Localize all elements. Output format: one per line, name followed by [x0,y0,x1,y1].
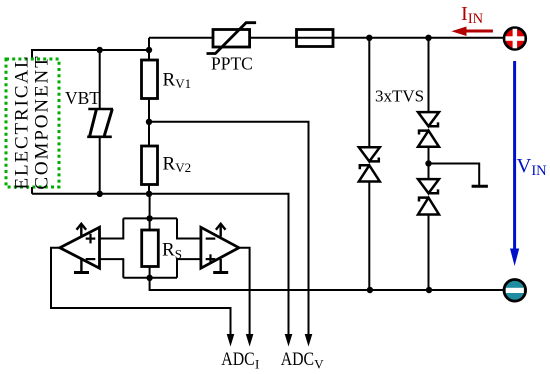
node dot R_S top [146,215,152,221]
wire vertical riser x=149 top rail to R_V1 [148,38,150,60]
fuse F1 [297,30,334,47]
arrow ADC_I b [246,334,254,347]
svg-text:ADC: ADC [281,350,314,370]
wire top main rail [149,37,504,39]
wire VBT branch lower [99,137,101,194]
node dot top rail x=428 [425,35,431,41]
terminal minus [504,280,526,302]
node dot TVS mid [425,160,431,166]
svg-text:ADC: ADC [221,350,254,370]
node dot (100,194) [97,191,103,197]
resistor R_V2 [142,146,158,185]
wire TVS right column upper [428,38,430,112]
arrow V_IN blue [510,61,519,266]
wire U2 minus input [177,218,201,238]
svg-text:VBT: VBT [65,88,100,108]
op-amp U1 ground [74,259,89,273]
svg-text:3xTVS: 3xTVS [375,87,424,106]
wire U2 output to ADC_I [239,248,250,335]
arrow ADC_V b [305,334,313,347]
node dot (100,50) [97,47,103,53]
wire U1 plus input [100,218,124,238]
wire R_S center bottom [149,267,151,278]
node dot bottom rail x=369 [367,287,373,293]
wire to ground [429,164,480,186]
wire between TVS D2 and D3 [428,147,430,179]
op-amp U1 minus sign [86,258,96,260]
wire electrical component bottom stub [31,187,33,194]
op-amp U2 minus sign [206,238,216,240]
wire TVS left column upper [368,38,370,147]
svg-text:PPTC: PPTC [211,54,253,74]
arrow ADC_V a [285,334,293,347]
svg-text:ELECTRICAL: ELECTRICAL [12,54,33,189]
wire divider tap y=122 to ADC_V [149,122,309,335]
node dot bottom rail x=429 [426,287,432,293]
node dot (149,50) [146,47,152,53]
op-amp U1 (left) [60,227,100,268]
op-amp U2 plus sign [206,254,216,264]
wire VBT branch upper [99,50,101,109]
PPTC diagonal strike [207,23,257,54]
wire second rail y=50 from electrical component to R_V1 node [32,50,149,59]
wire R_S top bar [123,217,177,219]
node dot (149,122) [146,119,152,125]
op-amp U2 ground [213,259,228,273]
node dot R_S bottom [146,275,152,281]
wire TVS left column lower [368,182,370,291]
arrow I_IN red [451,27,493,37]
svg-text:V: V [314,356,324,371]
TVS D3 bidirectional [418,179,439,214]
op-amp U1 plus sign [86,234,96,244]
TVS D2 bidirectional [418,112,439,147]
wire TVS right column lower [428,215,430,291]
wire R_S bottom bar [123,277,177,279]
node dot top rail x=369 [366,35,372,41]
resistor R_S [142,230,159,267]
electrical component box (green dashed) [6,59,59,187]
arrow ADC_I a [227,334,235,347]
varistor VBT symbol [87,109,113,137]
terminal plus [504,28,526,50]
wire between R_V1 and R_V2 [148,99,150,147]
TVS D1 bidirectional [359,147,380,181]
svg-text:COMPONENT: COMPONENT [32,54,53,189]
node dot (149,194) [146,191,152,197]
wire U2 plus input [177,259,201,278]
wire bottom rail to minus terminal [150,278,504,290]
svg-text:I: I [255,356,259,371]
wire U1 output to ADC_I [51,248,231,335]
wire U1 minus input [100,259,124,278]
wire R_S center top [149,194,151,230]
wire R_V2 bottom [148,185,150,194]
resistor R_V1 [142,60,158,99]
ground [472,185,488,188]
op-amp U1 power arrow [77,224,87,237]
wire bottom net y=194 to ADC_V [32,194,289,335]
PPTC fuse box [213,30,250,48]
op-amp U2 (right) [201,227,239,268]
op-amp U2 power arrow [216,224,226,237]
